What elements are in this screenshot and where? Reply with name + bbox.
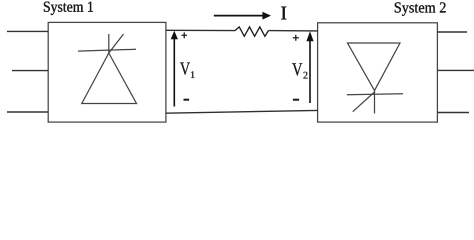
resistor R bbox=[235, 27, 268, 36]
box System 2 bbox=[318, 23, 438, 122]
wire top left segment bbox=[166, 29, 235, 31]
label subscript 2 of V2 bbox=[303, 72, 307, 79]
wire right AC phase 2 bbox=[437, 69, 474, 71]
wire left AC phase 2 bbox=[12, 70, 48, 72]
voltage arrow V2 bbox=[309, 40, 311, 103]
wire top right segment bbox=[268, 30, 317, 32]
wire right AC phase 3 bbox=[437, 112, 469, 114]
thyristor valve System 2: gate bbox=[353, 92, 375, 112]
current arrow I bbox=[214, 15, 263, 17]
plus sign V1 bbox=[182, 34, 188, 36]
voltage arrow V1 bbox=[173, 38, 175, 107]
plus sign V2 bbox=[293, 37, 299, 39]
thyristor valve System 2: cathode bar bbox=[347, 93, 403, 96]
label V of V2 bbox=[292, 63, 302, 75]
label subscript 1 of V1 bbox=[191, 71, 195, 78]
wire left AC phase 3 bbox=[7, 111, 48, 113]
label V of V1 bbox=[180, 63, 190, 75]
box System 1 bbox=[48, 22, 166, 122]
wire right AC phase 1 bbox=[437, 31, 467, 33]
thyristor valve System 2: lead bbox=[374, 91, 376, 114]
label System 2 bbox=[395, 2, 446, 15]
thyristor valve System 2: triangle bbox=[348, 43, 401, 91]
thyristor valve System 1: cathode bar bbox=[78, 49, 136, 51]
label I bbox=[281, 7, 286, 20]
wire left AC phase 1 bbox=[7, 30, 48, 32]
thyristor valve System 1: lead bbox=[108, 34, 110, 53]
wire bottom return bbox=[166, 110, 318, 113]
thyristor valve System 1: triangle bbox=[82, 53, 137, 104]
label System 1 bbox=[44, 2, 93, 15]
minus sign V1 bbox=[184, 99, 190, 101]
minus sign V2 bbox=[293, 99, 299, 101]
thyristor valve System 1: gate bbox=[109, 34, 124, 53]
